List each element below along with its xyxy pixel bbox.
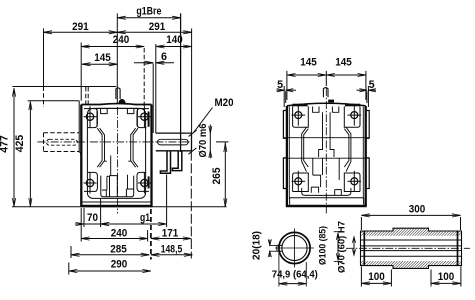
side lug box top-left	[293, 106, 309, 127]
end ring left	[363, 231, 365, 266]
dimension 425	[14, 102, 32, 207]
dimension 148,5	[151, 243, 193, 256]
side bottom U	[302, 188, 351, 195]
inner small square left	[102, 176, 110, 196]
lug outline top-right	[137, 109, 149, 128]
svg-text:148,5: 148,5	[161, 243, 183, 255]
svg-text:291: 291	[72, 21, 89, 33]
dimension line Ø100	[334, 232, 343, 262]
lug outline top-left	[84, 109, 97, 128]
hatch band top	[361, 228, 462, 236]
svg-text:291: 291	[149, 21, 166, 33]
detail dimension 100 left	[361, 271, 391, 285]
side right tab upper	[366, 111, 370, 139]
dimension 290	[69, 259, 151, 273]
side 145 right extension	[365, 71, 367, 100]
shaft end extension line below	[190, 151, 192, 259]
side top lug pad right	[345, 104, 360, 107]
240 left extension line	[80, 43, 82, 101]
side lug box bottom-right	[344, 173, 360, 192]
side inner top squares	[313, 107, 339, 113]
side hooks	[313, 158, 339, 180]
side middle channel	[319, 112, 334, 157]
hidden lines above flange	[86, 87, 88, 105]
side bolt bottom-right	[348, 171, 362, 192]
side 145 right dimension	[326, 57, 366, 77]
section crosshair	[275, 229, 314, 268]
70 right extension line	[100, 199, 102, 228]
svg-text:145: 145	[94, 52, 111, 64]
shaft bore capsule (M20 hole)	[158, 139, 189, 145]
svg-text:M20: M20	[215, 97, 234, 109]
svg-text:Ø100 (85): Ø100 (85)	[318, 226, 329, 265]
285 left extension stub	[70, 246, 72, 258]
side bolt top-right	[348, 105, 362, 126]
side lug box bottom-left	[293, 173, 309, 192]
291 left extension line	[43, 29, 45, 108]
dimension line Ø70 bore	[352, 237, 355, 255]
dimension g1Bre	[117, 6, 180, 20]
section outer circle	[279, 232, 310, 263]
bolt hole top-right	[138, 106, 151, 127]
shaft detail axis	[346, 247, 470, 249]
dimension 140	[156, 34, 192, 48]
side lug box top-right	[344, 106, 360, 127]
side steps	[311, 175, 341, 195]
dimension 265	[211, 142, 228, 207]
breather plug	[116, 88, 126, 104]
side parting line	[283, 137, 369, 139]
svg-text:100: 100	[438, 271, 455, 283]
side center line vertical	[325, 88, 327, 214]
bolt hole bottom-right	[138, 173, 151, 194]
left rib neck	[97, 128, 104, 167]
inner top steps	[101, 108, 134, 113]
300 left extension	[360, 217, 362, 230]
lug outline bottom-left	[84, 172, 97, 191]
side inner frame right	[344, 127, 351, 171]
housing inner bottom line	[82, 201, 150, 203]
dimension 291 right	[117, 21, 191, 34]
housing edge chain extension	[150, 209, 152, 260]
bottom base reference line	[12, 206, 227, 208]
dimension g1	[101, 212, 167, 225]
hidden rear shaft bore capsule dashed	[47, 139, 78, 145]
g1Bre right extension line	[180, 13, 182, 152]
dimension 145 top	[82, 52, 117, 66]
dimension Ø70 m6	[189, 123, 212, 158]
label 20(18)	[252, 231, 263, 260]
detail dimension 300	[361, 204, 460, 217]
svg-text:145: 145	[335, 57, 352, 69]
svg-text:240: 240	[111, 227, 128, 239]
425 top reference line	[28, 100, 79, 102]
svg-text:240: 240	[113, 34, 130, 46]
svg-text:6: 6	[161, 51, 167, 63]
svg-text:100: 100	[368, 271, 385, 283]
lug outline bottom-right	[137, 172, 149, 191]
svg-text:171: 171	[162, 227, 179, 239]
dimension 20(18)	[268, 239, 277, 257]
svg-text:290: 290	[111, 259, 128, 271]
side housing outline	[286, 103, 367, 206]
side right tab lower	[366, 158, 370, 189]
section bore circle	[282, 235, 307, 260]
side bolt top-left	[292, 105, 306, 126]
housing outline front view	[80, 104, 152, 206]
477 top reference line	[13, 86, 117, 88]
100R extensions	[431, 267, 461, 287]
bore line top	[361, 239, 462, 241]
side 145 left dimension	[287, 57, 326, 77]
side bolt bottom-left	[292, 171, 306, 192]
side dimension 5 right	[357, 79, 377, 107]
240 right extension line	[143, 48, 145, 110]
svg-text:265: 265	[211, 167, 223, 184]
291 right extension line	[191, 29, 193, 134]
end ring right	[457, 231, 459, 266]
svg-text:70: 70	[87, 212, 98, 224]
side bottom inner line	[290, 198, 364, 205]
bracket leg 2	[172, 151, 181, 171]
key line bottom	[361, 250, 462, 252]
inner small rectangle	[110, 156, 118, 197]
dimension 171	[151, 227, 191, 240]
svg-text:20(18): 20(18)	[252, 231, 263, 260]
bottom inner rectangle	[101, 176, 134, 197]
label Ø70 (60) H7	[337, 221, 348, 273]
neck hooks	[105, 160, 131, 162]
g1 right extension line	[166, 175, 168, 228]
left flange lip	[79, 101, 80, 155]
side inner wall lines	[289, 107, 363, 200]
hollow shaft outer outline	[361, 228, 462, 268]
svg-text:425: 425	[14, 135, 26, 153]
dimension 240 top	[81, 34, 144, 48]
label 74,9 (64,4)	[272, 270, 318, 281]
output axis center line	[38, 141, 193, 143]
hatch pattern def	[0, 0, 1, 1]
bolt hole top-left	[84, 106, 97, 127]
svg-text:477: 477	[0, 135, 10, 153]
side left tab lower	[283, 158, 287, 189]
290 left extension stub	[68, 263, 70, 275]
svg-text:300: 300	[409, 204, 426, 216]
svg-text:g1: g1	[140, 212, 150, 224]
inner contour frame	[87, 108, 145, 198]
right rib neck	[131, 128, 138, 167]
svg-text:Ø70 m6: Ø70 m6	[198, 123, 209, 158]
side left tab upper	[283, 111, 287, 139]
hatch band bottom	[361, 261, 462, 268]
100L extensions	[361, 267, 391, 287]
dimension 6	[134, 51, 174, 64]
g1Bre left extension line	[116, 13, 118, 104]
dimension 70	[75, 212, 110, 225]
dimension 477	[0, 88, 16, 206]
240b right extension line	[147, 230, 149, 242]
svg-text:140: 140	[166, 34, 183, 46]
vertical center line	[117, 107, 119, 214]
bracket leg 1	[160, 151, 170, 173]
dimension 285	[71, 243, 149, 256]
dimension 240 bottom	[81, 227, 147, 240]
side 145 left extension	[286, 71, 288, 100]
svg-text:g1Bre: g1Bre	[136, 6, 161, 18]
side dimension 5 left	[277, 79, 297, 107]
side 145 center extension	[325, 71, 327, 86]
side top lug pad left	[292, 104, 307, 107]
svg-text:285: 285	[110, 243, 127, 255]
6 left extension line	[152, 64, 154, 134]
side lower parting line	[283, 157, 369, 159]
inner top edge	[97, 107, 137, 109]
section keyway	[277, 245, 283, 251]
dimension 74,9	[279, 253, 306, 287]
bore line bottom	[361, 255, 462, 257]
240b left extension line	[80, 208, 82, 242]
detail dimension 100 right	[431, 271, 461, 285]
side breather plug	[323, 88, 334, 103]
bolt hole bottom-left	[84, 173, 97, 194]
70 left extension line	[83, 208, 85, 227]
label Ø100 (85)	[318, 226, 329, 265]
dimension 291 left	[44, 21, 118, 34]
key line top	[361, 245, 462, 247]
300 right extension	[460, 217, 462, 230]
svg-text:145: 145	[300, 57, 317, 69]
hidden rear shaft outline dashed	[44, 133, 80, 152]
side inner frame left	[302, 127, 309, 171]
input shaft outline	[156, 133, 192, 151]
label M20	[193, 97, 233, 133]
inner small square right	[126, 175, 133, 197]
6 right extension line	[155, 44, 157, 133]
